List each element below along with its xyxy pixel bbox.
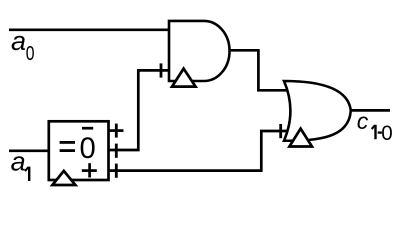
svg-text:0: 0 [26,42,35,64]
wire from =0 box middle output up to AND gate bottom input [109,70,170,150]
wire from =0 box bottom output to OR gate bottom input [109,131,288,171]
wire a1 input to =0 box [9,149,50,152]
polarity tick on =0 box bottom output [115,164,118,178]
label c 1-0 [357,108,393,145]
label a1 [11,146,30,181]
triangle marker on AND gate bottom edge [172,69,196,87]
unused =0 box top output stub [109,129,124,132]
triangle marker on box bottom edge [52,171,75,185]
svg-text:0: 0 [381,122,392,145]
wire OR gate output [352,109,391,112]
polarity tick on =0 box top output stub [115,124,118,138]
wire a0 input to AND gate top input [9,28,169,31]
polarity tick at AND gate bottom input [160,63,163,77]
svg-text:c: c [357,108,369,134]
svg-text:0: 0 [80,133,96,165]
plus mark below 0 (bottom output polarity) [82,163,97,177]
AND gate body [169,21,230,81]
label a0 [11,26,34,65]
svg-text:a: a [11,146,26,176]
OR gate body [284,81,351,141]
polarity tick at OR gate bottom input [279,124,282,138]
triangle marker on OR gate bottom curve [289,129,312,147]
polarity tick on =0 box middle output [115,144,118,158]
minus mark above 0 (top output polarity) [82,127,93,130]
wire AND gate output to OR gate top input [230,50,289,90]
equals sign inside box [60,141,75,144]
svg-text:a: a [11,26,26,56]
comparator box =0 [49,121,109,180]
